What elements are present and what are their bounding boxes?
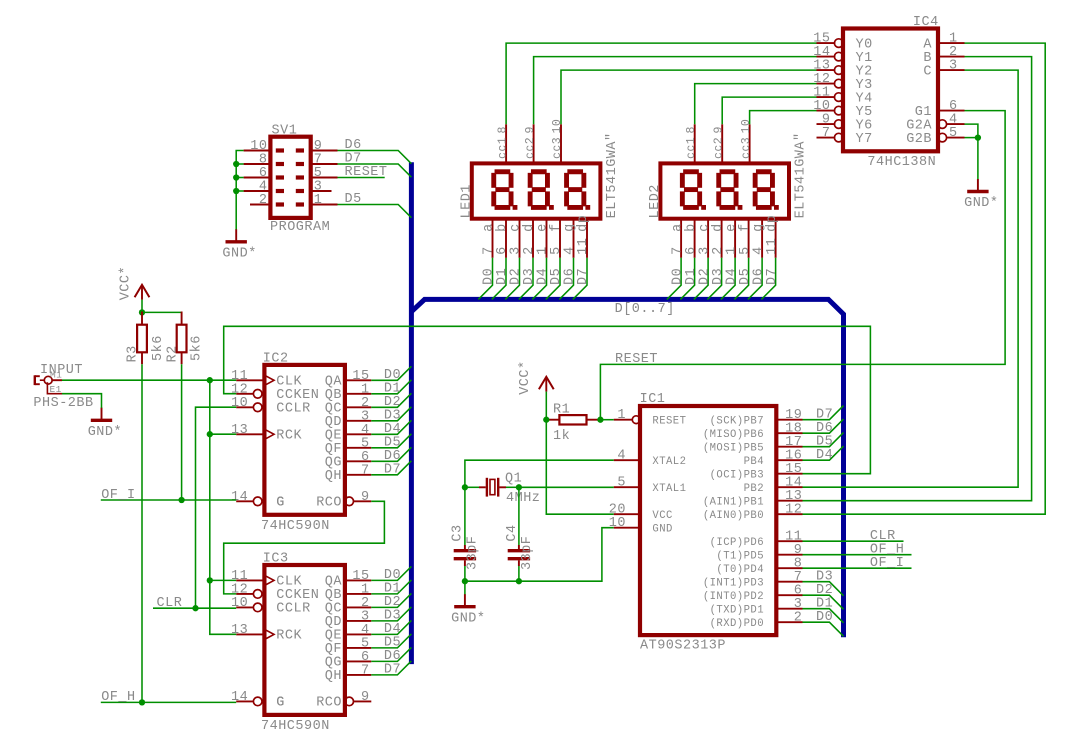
svg-text:OF_H: OF_H [101,690,135,705]
svg-text:PB4: PB4 [744,456,764,468]
svg-text:(T1)PD5: (T1)PD5 [716,550,764,562]
svg-text:11: 11 [765,238,780,255]
svg-text:Y7: Y7 [856,132,873,147]
svg-text:cc1: cc1 [496,137,509,159]
svg-text:12: 12 [785,503,802,518]
svg-text:(AIN0)PB0: (AIN0)PB0 [703,510,764,522]
svg-text:RESET: RESET [615,352,658,367]
svg-text:(ICP)PD6: (ICP)PD6 [710,537,764,549]
svg-text:7: 7 [361,463,370,478]
svg-text:OF_I: OF_I [101,488,135,503]
svg-text:GND*: GND* [222,246,256,261]
svg-text:D7: D7 [384,663,401,678]
svg-text:3: 3 [949,59,958,74]
svg-text:OF_I: OF_I [870,556,904,571]
svg-text:4MHz: 4MHz [506,491,540,506]
svg-text:PROGRAM: PROGRAM [270,220,330,235]
svg-text:AT90S2313P: AT90S2313P [640,639,726,654]
svg-text:GND*: GND* [964,196,998,211]
svg-text:(MOSI)PB5: (MOSI)PB5 [703,442,764,454]
svg-text:CCLR: CCLR [276,402,310,417]
svg-text:LED2: LED2 [648,184,663,218]
svg-text:G: G [276,696,285,711]
svg-text:10: 10 [551,119,564,134]
svg-text:VCC*: VCC* [119,266,134,300]
svg-text:(MISO)PB6: (MISO)PB6 [703,429,764,441]
svg-text:1: 1 [617,408,626,423]
svg-text:IC2: IC2 [263,351,289,366]
svg-text:74HC590N: 74HC590N [261,719,330,734]
svg-text:cc3: cc3 [740,137,753,159]
svg-text:IC3: IC3 [263,551,289,566]
svg-text:74HC138N: 74HC138N [867,155,936,170]
svg-text:33pF: 33pF [520,536,535,570]
svg-text:dp: dp [576,215,591,232]
svg-text:14: 14 [231,490,248,505]
svg-text:ELT541GWA": ELT541GWA" [793,132,808,218]
svg-text:G: G [276,496,285,511]
svg-text:33pF: 33pF [465,536,480,570]
svg-text:XTAL2: XTAL2 [652,456,686,468]
svg-text:D7: D7 [576,268,591,285]
svg-text:9: 9 [361,690,370,705]
svg-text:PHS-2BB: PHS-2BB [33,396,93,411]
svg-text:(INT0)PD2: (INT0)PD2 [703,591,764,603]
svg-text:8: 8 [496,126,509,133]
svg-text:D4: D4 [816,448,833,463]
svg-text:10: 10 [609,516,626,531]
svg-text:RCK: RCK [276,629,302,644]
svg-text:Q1: Q1 [505,472,522,487]
svg-text:QH: QH [325,469,342,484]
svg-text:R2: R2 [165,345,180,362]
svg-text:RESET: RESET [345,165,388,180]
svg-text:ELT541GWA": ELT541GWA" [605,132,620,218]
svg-text:D7: D7 [765,268,780,285]
svg-text:dp: dp [765,215,780,232]
svg-text:R3: R3 [126,345,141,362]
svg-text:5: 5 [617,476,626,491]
svg-text:2: 2 [794,611,803,626]
svg-text:(TXD)PD1: (TXD)PD1 [710,604,764,616]
svg-text:(RXD)PD0: (RXD)PD0 [710,618,764,630]
svg-text:CCLR: CCLR [276,602,310,617]
svg-text:cc3: cc3 [551,137,564,159]
svg-text:D5: D5 [345,192,362,207]
svg-text:D7: D7 [384,463,401,478]
svg-text:10: 10 [231,396,248,411]
svg-text:10: 10 [740,119,753,134]
svg-text:(OCI)PB3: (OCI)PB3 [710,469,764,481]
svg-text:IC4: IC4 [913,15,939,30]
svg-text:9: 9 [361,490,370,505]
svg-text:(AIN1)PB1: (AIN1)PB1 [703,496,764,508]
svg-text:XTAL1: XTAL1 [652,483,686,495]
svg-text:GND: GND [652,523,672,535]
svg-text:SV1: SV1 [272,123,298,138]
svg-text:R1: R1 [553,403,570,418]
svg-text:5: 5 [949,126,958,141]
svg-text:IC1: IC1 [640,392,666,407]
svg-text:cc2: cc2 [712,137,725,159]
svg-text:5k6: 5k6 [190,335,205,361]
svg-text:VCC*: VCC* [518,360,533,394]
svg-text:13: 13 [231,623,248,638]
svg-text:1k: 1k [553,429,570,444]
svg-text:C3: C3 [450,524,465,541]
svg-text:cc1: cc1 [685,137,698,159]
svg-text:(T0)PD4: (T0)PD4 [716,564,764,576]
svg-text:RCK: RCK [276,429,302,444]
svg-text:QH: QH [325,669,342,684]
svg-text:GND*: GND* [451,611,485,626]
svg-text:cc2: cc2 [524,137,537,159]
svg-text:VCC: VCC [652,510,672,522]
svg-text:9: 9 [524,126,537,133]
svg-text:G2B: G2B [906,132,932,147]
svg-text:5k6: 5k6 [151,335,166,361]
svg-text:1: 1 [314,193,323,208]
svg-text:9: 9 [712,126,725,133]
svg-text:RCO: RCO [316,696,342,711]
svg-text:CLR: CLR [157,596,183,611]
svg-text:7: 7 [822,126,831,141]
svg-text:11: 11 [576,238,591,255]
svg-text:74HC590N: 74HC590N [261,519,330,534]
svg-text:GND*: GND* [88,425,122,440]
svg-text:D0: D0 [816,610,833,625]
svg-text:13: 13 [231,423,248,438]
svg-text:(SCK)PB7: (SCK)PB7 [710,415,764,427]
svg-text:M1: M1 [50,369,62,380]
svg-text:PB2: PB2 [744,483,764,495]
svg-text:LED1: LED1 [459,184,474,218]
svg-text:4: 4 [617,449,626,464]
svg-text:(INT1)PD3: (INT1)PD3 [703,577,764,589]
svg-text:C: C [923,64,932,79]
svg-text:8: 8 [685,126,698,133]
svg-text:RCO: RCO [316,496,342,511]
svg-text:C4: C4 [505,524,520,541]
svg-text:2: 2 [259,193,268,208]
svg-text:7: 7 [361,663,370,678]
svg-text:E1: E1 [50,384,62,395]
svg-text:D[0..7]: D[0..7] [615,302,675,317]
svg-text:RESET: RESET [652,415,686,427]
